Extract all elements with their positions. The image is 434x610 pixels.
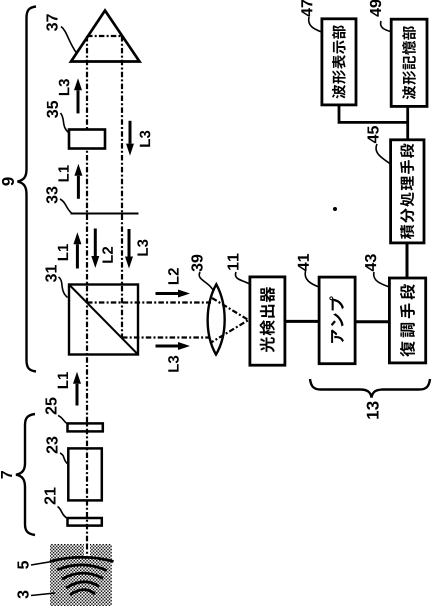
waveform memory box 49 xyxy=(391,19,427,106)
leader 33 xyxy=(60,199,72,214)
label 41 xyxy=(298,254,309,271)
specimen 3 stipple xyxy=(50,544,112,606)
label 5 xyxy=(17,561,28,569)
text koukenshutsuki xyxy=(260,287,275,352)
label 47 xyxy=(301,0,312,17)
stray dot xyxy=(333,207,337,211)
label 43 xyxy=(365,254,376,271)
label 3 xyxy=(17,591,28,599)
label 9 xyxy=(2,177,14,185)
half mirror 33 xyxy=(71,213,139,215)
label 31 xyxy=(45,265,56,282)
leader 39 xyxy=(199,272,213,290)
label 23 xyxy=(46,437,57,454)
arrow L3 down b xyxy=(125,229,133,269)
ultrasonic waves 5 xyxy=(50,557,114,595)
label L3 d xyxy=(168,356,179,372)
leader 45 xyxy=(376,144,390,164)
lens 39 xyxy=(208,284,225,354)
beam L3 to lens xyxy=(122,336,210,338)
leader 21 xyxy=(58,507,68,519)
label 37 xyxy=(46,14,57,31)
converging rays xyxy=(211,298,249,343)
label L3 b xyxy=(140,131,151,147)
leader 23 xyxy=(60,453,69,465)
optical plate 21 xyxy=(68,518,102,526)
arrow L1 up c xyxy=(73,372,81,406)
prism 37 xyxy=(71,11,140,62)
label L1 c xyxy=(58,372,68,388)
leader 5 xyxy=(31,561,55,565)
label 49 xyxy=(370,0,381,17)
beam path in prism xyxy=(87,35,122,37)
text hakei kiokubu xyxy=(402,26,416,99)
leader 41 xyxy=(305,271,319,287)
label L2 b xyxy=(168,268,178,284)
photodetector box 11 xyxy=(250,277,285,365)
label L3 a xyxy=(59,79,70,95)
arrow L2 right xyxy=(156,290,191,298)
amp box 41 xyxy=(319,277,355,364)
label L3 c xyxy=(137,240,148,256)
demodulator box 43 xyxy=(389,278,425,363)
leader 43 xyxy=(374,272,390,287)
label 35 xyxy=(47,101,58,118)
brace 13 xyxy=(310,379,430,398)
leader 47 xyxy=(309,17,322,32)
label 11 xyxy=(227,254,238,270)
arrow L3 up xyxy=(74,78,82,113)
leader 49 xyxy=(381,21,392,32)
arrow L2 down xyxy=(91,229,99,269)
wire 47 junction xyxy=(339,105,408,123)
brace 9 xyxy=(18,7,37,372)
wire 41 to 43 xyxy=(355,320,389,323)
beam splitter 31 xyxy=(69,285,138,355)
label 13 xyxy=(367,401,379,418)
arrow L1 up b xyxy=(73,232,81,268)
leader 11 xyxy=(235,272,249,284)
beam L3 return vertical xyxy=(121,36,123,338)
text sekibun shori shudan xyxy=(400,144,414,239)
label L1 b xyxy=(58,244,68,260)
optical element 23 xyxy=(68,448,102,500)
leader 25 xyxy=(58,416,68,425)
brace 7 xyxy=(16,414,35,535)
leader 35 xyxy=(61,113,69,133)
label L1 a xyxy=(58,165,68,181)
waveform display box 47 xyxy=(322,19,356,105)
text fukuchou shudan xyxy=(400,284,415,356)
wire 45 to 49 xyxy=(406,106,409,139)
beam halo over specimen xyxy=(84,544,90,557)
integration box 45 xyxy=(391,140,424,243)
label L2 a xyxy=(102,247,112,263)
optical element 35 xyxy=(69,130,105,149)
text hakei hyoujibu xyxy=(332,25,346,98)
arrow L1 up a xyxy=(74,164,82,199)
label 7 xyxy=(1,471,12,479)
label 25 xyxy=(45,398,56,415)
leader 37 xyxy=(61,27,77,54)
text anpu xyxy=(329,296,344,342)
label 45 xyxy=(367,126,378,143)
leader 3 xyxy=(31,593,55,596)
arrow L3 right xyxy=(156,342,191,350)
leader 31 xyxy=(59,277,68,298)
arrow L3 down right line xyxy=(126,121,134,156)
label 33 xyxy=(46,187,57,204)
beam L2 to lens xyxy=(87,301,211,303)
wire 43 to 45 xyxy=(406,243,409,278)
wire 11 to 41 xyxy=(285,320,319,323)
beam L1 main vertical xyxy=(86,36,88,557)
label 21 xyxy=(44,488,55,505)
label 39 xyxy=(191,255,202,272)
optical plate 25 xyxy=(68,423,103,431)
